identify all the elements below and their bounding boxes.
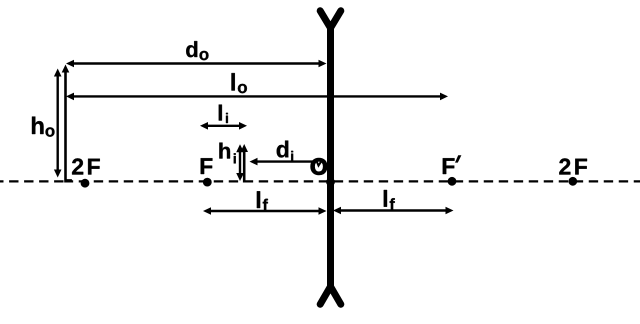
object base foot [66,179,72,181]
dimension arrow l_f left [203,207,327,215]
label O [311,158,327,174]
dimension arrow d_o [66,60,327,68]
node F' dot [448,177,457,186]
optical axis [0,180,640,182]
label d_i [277,141,293,161]
dimension arrow l_o [66,93,448,101]
dimension arrow l_f right [333,207,454,215]
label F [201,158,213,174]
node O dot [326,178,335,187]
image arrow [240,144,248,183]
label 2F left [72,158,100,174]
label h_i [219,143,235,164]
label F' [443,155,462,174]
label 2F right [559,158,587,174]
label h_o [32,117,55,137]
dimension arrow h_i [236,144,244,181]
label l_f left [257,191,268,210]
dimension arrow h_o [54,69,62,178]
object arrow [62,65,70,183]
dimension arrow d_i [250,158,314,166]
lens L1 [320,11,341,304]
node 2F right dot [568,177,577,186]
label l_f right [384,190,395,210]
node 2F left dot [81,179,90,188]
dimension arrow l_i [200,122,247,130]
node F dot [203,178,212,187]
label l_i [219,105,228,123]
label l_o [232,73,247,93]
label d_o [186,41,208,60]
